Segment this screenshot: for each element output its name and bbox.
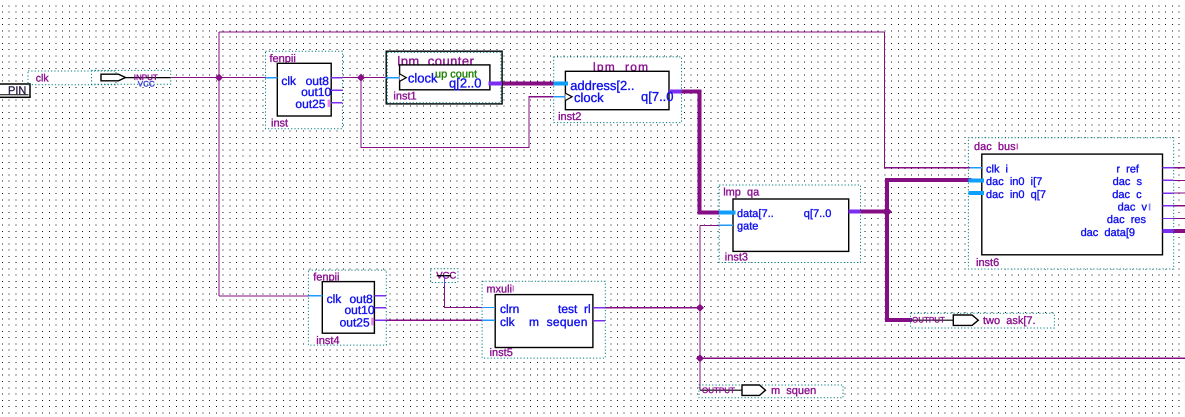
- PIN tooltip box top-left: [0, 84, 30, 97]
- selection box: [911, 313, 1055, 328]
- pin stub m_sequen: [593, 320, 605, 322]
- pin stub out10: [331, 89, 342, 91]
- pin stub out25: [331, 102, 342, 104]
- svg-text:PIN: PIN: [8, 85, 26, 97]
- mxuli U7 (m-sequence generator): [482, 281, 605, 359]
- selection box: [387, 52, 501, 102]
- VCC bar: [437, 275, 452, 277]
- pin stub q (violet thick): [489, 82, 502, 86]
- svg-text:two ask[7.: two ask[7.: [983, 315, 1036, 327]
- svg-text:dac s: dac s: [1113, 176, 1143, 188]
- pin stub out8: [374, 295, 386, 297]
- svg-text:out25: out25: [340, 315, 370, 329]
- pin stub clk: [308, 295, 322, 297]
- svg-text:inst2: inst2: [558, 111, 581, 123]
- input pin clk: [28, 70, 171, 88]
- body: [277, 63, 331, 116]
- bus: lpm_rom q to lmp_qa data: [681, 92, 720, 213]
- svg-text:OUTPUT: OUTPUT: [702, 386, 735, 395]
- pin stub clk: [266, 77, 278, 79]
- pin stub q (violet thick): [849, 210, 861, 214]
- wire: fenpii U1 out8 to junction B: [342, 77, 385, 79]
- wire: right vertical down to dac clk_i: [885, 32, 970, 168]
- pin stub clk: [482, 319, 495, 321]
- svg-text:clock: clock: [408, 70, 438, 85]
- svg-text:inst1: inst1: [393, 91, 416, 103]
- svg-text:clk i: clk i: [986, 163, 1008, 175]
- svg-text:dac bus: dac bus: [974, 141, 1016, 153]
- lpm_counter U2: [385, 51, 502, 104]
- svg-text:q[2..0: q[2..0: [449, 76, 482, 91]
- junction E (698.4,358.2): [696, 354, 704, 362]
- pin stub out25: [374, 319, 386, 321]
- svg-text:inst5: inst5: [490, 347, 513, 359]
- output pin symbol: [742, 385, 766, 395]
- svg-text:m squen: m squen: [771, 385, 816, 397]
- selection box: input symbol: [92, 70, 171, 84]
- pin stub test_r: [593, 307, 605, 309]
- output pin symbol: [953, 315, 978, 325]
- body: [733, 199, 849, 251]
- junction A (219,77.6): [215, 74, 223, 82]
- wire: lmp_qa gate horizontal: [700, 224, 719, 226]
- pin stub dac_in0_i (cyan thick): [968, 178, 984, 182]
- junction D (698.4,307.7): [696, 304, 704, 312]
- output pin stubs (violet): [1163, 167, 1174, 169]
- selection box: [266, 51, 343, 128]
- body: [565, 71, 669, 109]
- body: [495, 295, 593, 348]
- selection box: [968, 138, 1173, 269]
- svg-text:dac data[9: dac data[9: [1081, 227, 1135, 239]
- wire: top horizontal y=32: [219, 31, 885, 33]
- wire: gate vertical x=698.4: [699, 225, 701, 390]
- pin stub out8: [331, 77, 342, 79]
- svg-text:inst: inst: [271, 117, 288, 129]
- wire: input pin to junction A: [171, 77, 220, 79]
- svg-text:m sequen: m sequen: [529, 315, 588, 329]
- pin stub clock: [554, 96, 566, 98]
- wire: fenpii U4 out25 to mxuli clk: [386, 319, 482, 321]
- svg-text:dac res: dac res: [1107, 214, 1147, 226]
- wire: VCC to mxuli clrn: [445, 284, 483, 308]
- pin stub data (cyan thick): [719, 210, 735, 214]
- selection box: [308, 270, 386, 345]
- pin stub gate: [719, 224, 733, 226]
- pin stub clock (outside): [385, 77, 399, 79]
- black lead line: [700, 389, 742, 391]
- wire: mxuli test_r to junction D: [605, 307, 700, 309]
- output pin two_ask: [911, 313, 1055, 328]
- svg-text:out25: out25: [295, 97, 325, 111]
- wire: dac_bus output wires to right edge: [1174, 167, 1185, 169]
- wire: junction E to right edge y=358.2: [700, 357, 1185, 359]
- selection box: [431, 269, 458, 283]
- svg-text:inst6: inst6: [976, 257, 999, 269]
- pin stub clk_i: [970, 167, 982, 169]
- svg-text:OUTPUT: OUTPUT: [912, 316, 945, 325]
- bus wires (thick): [501, 84, 1185, 320]
- selection box: [699, 385, 843, 398]
- wire clk net: input to junction A: [171, 32, 1185, 390]
- svg-text:inst4: inst4: [316, 335, 339, 347]
- pin stub clrn: [482, 307, 495, 309]
- wire: bottom to fenpii U4 clk: [219, 295, 309, 297]
- svg-text:q[7..0: q[7..0: [804, 208, 832, 220]
- bus: junction C up to dac_in0_i: [887, 180, 972, 213]
- wire: junction A to fenpii U1 clk: [219, 77, 266, 79]
- svg-text:q[7..0: q[7..0: [641, 89, 674, 104]
- bus: dac_data[9..0] wire stub right edge: [1174, 229, 1185, 233]
- junction C (886.9,211.6): [882, 207, 892, 217]
- inner body: [400, 65, 490, 90]
- fenpii U1 (frequency divider, top): [266, 51, 343, 129]
- svg-text:dac in0 i[7: dac in0 i[7: [986, 176, 1042, 188]
- svg-text:clock: clock: [574, 90, 604, 105]
- selection box: [482, 281, 605, 358]
- lmp_qa U4: [719, 185, 860, 263]
- svg-text:data[7..: data[7..: [737, 208, 774, 220]
- svg-text:dac c: dac c: [1112, 189, 1142, 201]
- svg-text:clk: clk: [500, 315, 516, 329]
- clock chevron: [565, 93, 572, 100]
- clock chevron: [400, 74, 407, 81]
- fenpii U6 (frequency divider, bottom): [308, 270, 386, 347]
- wire: junction B down to lpm_rom clock: [361, 78, 554, 148]
- bus: lpm_counter q to lpm_rom address: [501, 82, 554, 86]
- outer body: [386, 51, 502, 104]
- bus: lmp_qa q to junction C: [860, 210, 887, 214]
- svg-text:r ref: r ref: [1116, 163, 1140, 175]
- svg-text:clk: clk: [327, 292, 343, 306]
- lpm_rom U3: [554, 57, 682, 123]
- input pin symbol: [101, 74, 126, 81]
- dac_bus U5: [968, 138, 1173, 269]
- svg-text:mxuli: mxuli: [486, 284, 512, 296]
- pin stub q (violet thick): [669, 90, 681, 94]
- VCC power symbol: [431, 269, 458, 285]
- bus: junction C down to OUTPUT two_ask: [887, 210, 912, 320]
- junction B (361,77.6): [357, 74, 365, 82]
- output pin m_squen: [699, 385, 843, 398]
- selection box: [719, 185, 860, 263]
- pin stub out10: [374, 307, 386, 309]
- wire: clk vertical trunk x=219: [218, 32, 220, 296]
- svg-text:dac v: dac v: [1118, 202, 1148, 214]
- selection box: [554, 57, 682, 123]
- pin stub address (cyan thick): [554, 82, 568, 86]
- selection box: clk label: [28, 71, 116, 85]
- svg-text:lmp qa: lmp qa: [723, 187, 760, 199]
- svg-text:inst3: inst3: [725, 251, 748, 263]
- pin stub dac_in0_q (cyan thick): [968, 191, 984, 195]
- svg-text:VCC: VCC: [138, 80, 155, 89]
- body: [322, 282, 374, 334]
- black lead line: [912, 319, 954, 321]
- svg-text:dac in0 q[7: dac in0 q[7: [986, 189, 1046, 201]
- body: [982, 154, 1163, 255]
- svg-text:clk: clk: [281, 74, 297, 88]
- svg-text:gate: gate: [737, 221, 758, 233]
- svg-text:clk: clk: [36, 73, 50, 85]
- VCC stub: [444, 276, 446, 285]
